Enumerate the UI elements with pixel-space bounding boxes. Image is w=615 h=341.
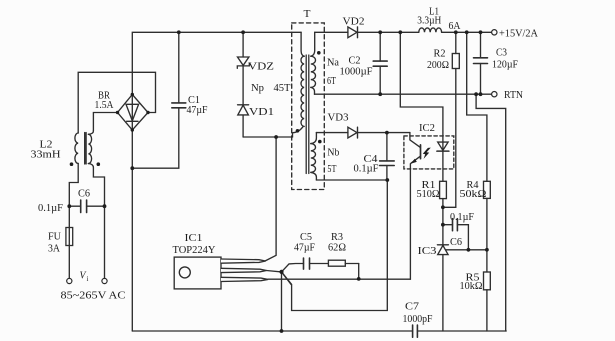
svg-text:120µF: 120µF [492,60,518,71]
svg-text:+15V/2A: +15V/2A [499,29,538,40]
svg-text:T: T [304,9,312,20]
svg-text:3A: 3A [48,244,60,255]
svg-text:5T: 5T [327,164,336,175]
svg-text:3.3µH: 3.3µH [417,16,441,27]
svg-text:IC3: IC3 [418,246,437,257]
svg-text:VD2: VD2 [343,17,365,28]
svg-text:47µF: 47µF [187,105,208,116]
svg-text:TOP224Y: TOP224Y [173,245,216,256]
svg-text:Na: Na [327,58,339,69]
svg-text:C7: C7 [405,302,419,313]
svg-text:200Ω: 200Ω [427,60,449,71]
svg-text:i: i [87,275,89,283]
svg-text:1000pF: 1000pF [403,314,433,325]
svg-text:IC2: IC2 [419,123,435,134]
svg-text:10kΩ: 10kΩ [460,281,483,292]
svg-text:85~265V AC: 85~265V AC [61,291,126,302]
svg-text:0.1µF: 0.1µF [38,203,63,214]
svg-text:VD3: VD3 [328,113,349,124]
svg-text:50kΩ: 50kΩ [460,189,487,200]
svg-text:33mH: 33mH [31,150,61,161]
svg-text:510Ω: 510Ω [417,189,440,200]
svg-text:FU: FU [48,232,61,243]
svg-text:R2: R2 [434,49,446,60]
svg-text:C5: C5 [300,232,312,243]
svg-text:IC1: IC1 [185,233,203,244]
svg-text:RTN: RTN [504,90,523,101]
svg-text:6T: 6T [327,76,336,87]
svg-text:C2: C2 [349,56,361,67]
svg-text:6A: 6A [449,21,461,32]
svg-text:47µF: 47µF [294,243,315,254]
svg-text:Np: Np [251,83,264,94]
svg-text:62Ω: 62Ω [328,243,346,254]
svg-text:1.5A: 1.5A [95,100,114,111]
svg-text:Nb: Nb [327,148,339,159]
svg-text:VD1: VD1 [249,107,274,118]
svg-text:0.1µF: 0.1µF [450,212,474,223]
svg-text:C3: C3 [496,48,507,59]
svg-text:VDZ: VDZ [248,62,274,73]
svg-text:0.1µF: 0.1µF [354,164,379,175]
svg-text:C6: C6 [78,189,90,200]
svg-text:45T: 45T [274,83,292,94]
svg-text:R3: R3 [331,232,343,243]
svg-text:1000µF: 1000µF [340,67,373,78]
svg-text:C6: C6 [450,237,462,248]
